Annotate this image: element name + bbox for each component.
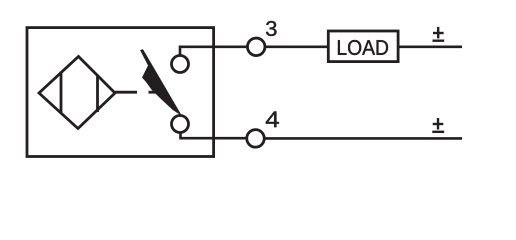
diamond right chord	[96, 75, 99, 112]
proximity sensor diamond	[39, 57, 115, 129]
terminal circle 3	[247, 38, 265, 56]
wire: LOAD to supply	[398, 45, 462, 48]
switch lever with arrowhead	[140, 49, 182, 116]
wire: terminal 4 to supply	[264, 137, 462, 140]
LOAD box	[328, 31, 398, 62]
pin label 3	[266, 21, 277, 36]
top contact circle	[172, 56, 189, 73]
wire: terminal 3 to LOAD	[265, 45, 328, 48]
bottom contact circle	[172, 116, 189, 133]
diamond left chord	[60, 72, 63, 114]
plus-minus supply bottom	[432, 118, 444, 132]
actuation dashed link	[115, 91, 137, 94]
pin label 4	[266, 112, 279, 128]
LOAD label	[338, 40, 388, 55]
wire: top stub and wire to terminal 3	[180, 47, 247, 56]
plus-minus supply top	[433, 27, 445, 41]
wire: bottom stub and wire to terminal 4	[181, 133, 247, 139]
terminal circle 4	[247, 130, 265, 148]
sensor body box	[27, 28, 214, 157]
